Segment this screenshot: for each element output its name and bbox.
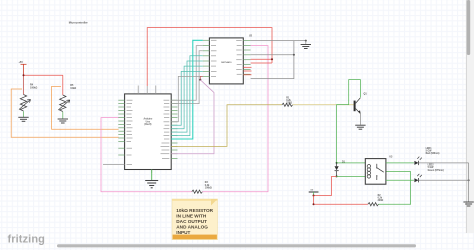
wire yellow R1 to Q1 base [293,104,354,106]
wire red pot1 top [23,75,25,94]
wire green Q1 collector loop [337,80,361,163]
wire red 5V rail [24,74,63,76]
wire green relay NC to LED2 [386,179,414,181]
horizontal scrollbar thumb [57,244,416,247]
svg-text:Uno: Uno [146,121,151,123]
wire red battery to coil [332,176,337,195]
diode D1 flyback [335,164,339,177]
ground Q1 [355,125,365,129]
wire gray bus 2 [171,51,203,104]
svg-text:SN754410: SN754410 [221,61,232,64]
LED1 [414,157,421,166]
wire gray U2 gnd loop [251,41,294,79]
svg-text:10kΩ: 10kΩ [70,87,76,90]
node coil top junction [336,162,338,164]
resistor R2 [368,203,379,206]
node coil bottom junction [336,175,338,177]
wire red stub 2 [243,70,251,72]
U1 left pin stubs [118,100,124,155]
wire green coil bottom [337,175,366,177]
node battery lower junction [313,203,315,205]
node maroon bend [199,79,201,81]
ground U2 [305,41,307,45]
transistor Q1 [354,98,361,114]
U1 top pin stubs [138,86,156,94]
wire red pot2 top [62,75,64,95]
vertical scrollbar [466,0,474,233]
power supply 5V terminal [309,191,319,193]
svg-text:100kΩ: 100kΩ [205,187,212,189]
wire teal bus 3 [171,61,203,132]
wire green U1 GND down [151,170,153,181]
+5V supply symbol [21,64,27,75]
U1 left pin labels [127,100,133,164]
note sticky [172,199,218,240]
wire gray LED1 right [419,162,469,164]
wire pink resistor to driver OUT [202,46,268,192]
wire olive DAC to transistor base [171,105,282,147]
svg-text:Arduino: Arduino [143,118,152,121]
wire green R2 to relay COM [379,172,411,205]
wire green coil top [337,162,366,164]
wire pink A0 to resistor R3 [101,118,192,192]
wire red battery rail [314,195,332,197]
node LED bus junction [468,179,470,181]
LED2 [414,174,421,182]
node 5V junction [23,74,25,76]
wire pot1 to ground [23,111,25,117]
U2 pin labels [211,40,242,76]
wire teal bus 2 [171,56,203,136]
node gnd junction [305,40,307,42]
U1 bottom pin stub [151,170,153,174]
svg-text:Green (575nm): Green (575nm) [428,170,444,172]
wire pot2 to ground [62,112,64,119]
potentiometer R4 [19,95,31,111]
svg-text:DAC OUTPUT: DAC OUTPUT [176,219,207,224]
potentiometer R5 [58,95,70,111]
svg-text:220Ω: 220Ω [378,200,384,202]
wire teal bus 5 [171,71,203,125]
U1 right pin stubs [171,100,177,158]
wire gray bus 1 [171,46,203,101]
wire mauve diagonal to U1 pin [171,80,214,154]
wire red U2 VCC1 [251,62,272,64]
svg-text:fritzing: fritzing [8,234,45,246]
wire orange pot1 wiper to A1 [11,89,118,137]
resistor R3 inline [192,190,203,193]
resistor R1 [282,103,293,106]
svg-text:AND ANALOG: AND ANALOG [176,225,208,230]
wire red stub 3 [243,74,251,76]
driver IC U2 [209,38,243,84]
svg-text:(Rev3): (Rev3) [144,124,151,126]
microcontroller U1 Arduino Uno [125,94,172,170]
wire orange pot2 wiper to A2 [52,86,119,129]
wire gray Q1 emitter [359,114,361,125]
svg-text:+5V: +5V [19,61,24,64]
wire gray U2 gnd top [251,40,306,42]
wire red 5V from U1 top to driver [147,28,272,86]
wire gray LED bus down [468,163,470,202]
ground U1 [145,181,158,188]
svg-text:IN LINE WITH: IN LINE WITH [176,214,207,219]
ground LED bus [463,202,473,206]
U1 right pin labels [161,100,170,158]
U1 aref stub wire [103,164,125,166]
wire gray LED2 right [419,179,469,181]
wire red stub 1 [243,66,251,68]
wire teal bus D7 (bright) [171,40,203,139]
wire red U2 VCC2 [251,58,272,60]
svg-text:Microcontroller: Microcontroller [69,20,88,24]
svg-text:INPUT: INPUT [176,230,190,235]
U2 right pin stubs [243,41,250,75]
wire maroon EN to U1 [200,76,203,79]
node battery junction [313,195,315,197]
ground pot2 [58,119,68,123]
svg-text:220Ω: 220Ω [286,103,292,105]
ground pot1 [18,117,28,121]
svg-text:100kΩ: 100kΩ [30,87,37,90]
wire teal bus 4 [171,66,203,129]
wire red battery to R2 [314,196,368,205]
node gray junction [293,54,295,56]
relay U3 [365,159,386,185]
wire gray bus 3 [171,76,203,121]
node red junction U2 [271,58,273,60]
U2 left pin stubs [203,40,210,76]
svg-text:10kΩ RESISTOR: 10kΩ RESISTOR [176,208,213,213]
wire green relay NO to LED1 [386,162,414,164]
svg-text:Red (633nm): Red (633nm) [426,153,440,155]
